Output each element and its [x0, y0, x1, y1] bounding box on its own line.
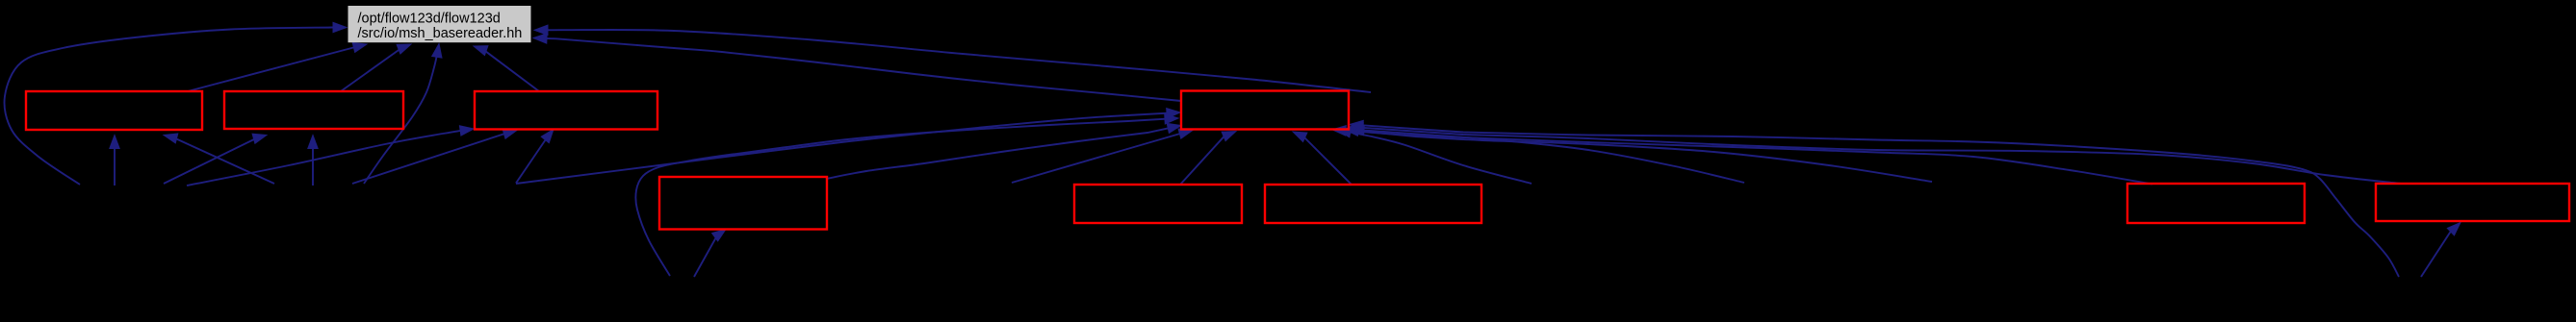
- edge n1 to main (long left curve): [5, 22, 347, 185]
- node box E (truncated, red): [659, 177, 827, 230]
- edge box C to main: [474, 46, 539, 91]
- node box F (truncated, red): [1074, 185, 1242, 223]
- node box A (truncated, red): [26, 91, 202, 130]
- edge n1 to box B: [164, 134, 267, 184]
- edge n5a to box D: [1337, 128, 1532, 184]
- node box G (truncated, red): [1265, 185, 1481, 223]
- edge n4 to box D: [1012, 129, 1193, 183]
- edge n5b to box D: [1351, 125, 1744, 183]
- edge box A to main: [188, 42, 367, 91]
- edge n2 to box C: [352, 129, 517, 184]
- edge box I to box D: [1350, 123, 2401, 184]
- edge box D to main: [533, 34, 1181, 101]
- edge n1 to box C: [187, 126, 474, 186]
- node box B (truncated, red): [224, 91, 403, 129]
- edge n3 to box C: [516, 130, 554, 184]
- edge box B to main: [341, 44, 411, 91]
- edge box F to box D: [1180, 132, 1236, 186]
- node box H (truncated, red): [2127, 184, 2305, 223]
- edge n1 to box A: [110, 136, 119, 186]
- edge n5c to box D: [1345, 126, 1932, 182]
- edge n6 to box E: [694, 230, 726, 278]
- edge n7 to box I: [2421, 223, 2460, 278]
- edge n2 to box B: [308, 136, 318, 186]
- svg-text:/opt/flow123d/flow123d: /opt/flow123d/flow123d: [358, 11, 501, 26]
- edge n8 to main (upper right line): [534, 25, 1371, 92]
- edge n2 to main: [364, 44, 442, 185]
- edge n7 to box D (curve between H and I): [1350, 120, 2399, 277]
- edge n3 to box D: [516, 109, 1180, 184]
- node box C (truncated, red): [475, 91, 657, 130]
- svg-text:/src/io/msh_basereader.hh: /src/io/msh_basereader.hh: [358, 26, 523, 41]
- node main: /opt/flow123d/flow123d/src/io/msh_basereader.hh: [348, 6, 531, 42]
- edge box H to box D: [1332, 126, 2152, 185]
- node box I (truncated, red): [2376, 184, 2569, 221]
- edge n2 to box A: [164, 134, 274, 184]
- node box D (truncated, red): [1181, 91, 1349, 130]
- edge n6 to box D (curve around box E): [635, 114, 1178, 276]
- edge box E to box D: [826, 123, 1181, 179]
- edge box G to box D: [1293, 132, 1352, 185]
